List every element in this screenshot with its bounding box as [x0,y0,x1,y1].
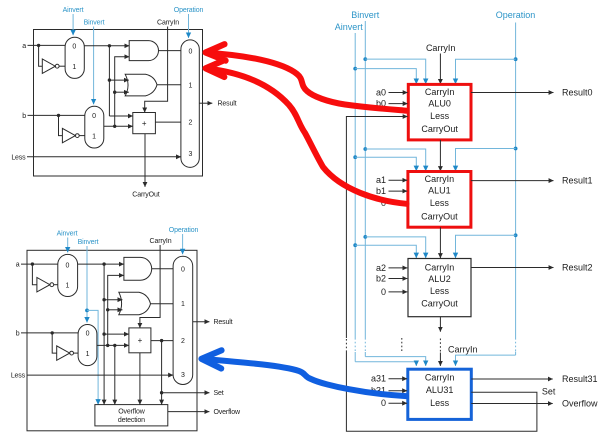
wire b0 [389,103,408,105]
svg-text:CarryIn: CarryIn [425,262,455,272]
wire operation to ALU31 [456,355,516,366]
wire Ainvert select [67,238,69,253]
node b-col OR [106,308,109,311]
overflow detection box [95,405,168,426]
wire 0 row31 [389,402,408,404]
and gate A2 [124,257,152,280]
svg-text:0: 0 [381,398,386,408]
net feedback dotted gap [345,338,347,352]
mux R2 (4:1 operation) [173,256,193,384]
svg-text:Result: Result [218,101,237,108]
node set out [160,391,163,394]
node b-branch [51,331,54,334]
svg-text:Result2: Result2 [562,262,593,272]
wire b2 [389,278,408,280]
wire carry ALU2 down [439,317,441,332]
wire Operation select [188,14,190,38]
wire ainvert to ALU31 [355,362,416,366]
net ellipsis column [401,338,403,352]
wire inverter to mux [74,352,79,354]
wire muxB2 out to adder [97,344,129,346]
net Ainvert vertical [354,33,356,338]
svg-text:0: 0 [72,43,76,50]
svg-text:CarryIn: CarryIn [448,345,478,355]
svg-text:0: 0 [189,49,193,56]
node a-col adder [102,332,105,335]
red arrow ALU0 shaft [207,53,407,111]
node binvert row1 [363,147,367,151]
svg-text:Set: Set [214,390,224,397]
svg-text:ALU2: ALU2 [428,274,451,284]
svg-text:Result: Result [214,319,233,326]
wire binvert to ALU2 [365,237,425,258]
wire Set feedback loop [346,352,537,431]
wire CarryIn top [439,54,441,85]
wire muxA1 out to AND [84,45,129,47]
svg-text:CarryOut: CarryOut [132,192,159,199]
node ainvert row0 [353,67,357,71]
wire CarryOut [144,134,146,187]
wire carry ALU0 to ALU1 [439,140,441,171]
wire OR out [151,303,174,305]
inverter B2 [57,346,70,360]
wire AND out [159,50,181,52]
svg-text:CarryOut: CarryOut [421,124,458,134]
svg-text:CarryOut: CarryOut [421,298,458,308]
wire 0 row1 [389,202,408,204]
wire a-col to OR [104,299,122,301]
svg-text:Less: Less [11,373,26,380]
wire Result out [193,321,210,323]
svg-text:Overflow: Overflow [562,398,598,408]
wire b-col to AND [108,275,124,345]
svg-text:3: 3 [181,372,185,379]
wire b-col to OR [108,309,123,311]
wire operation to ALU0 [456,59,516,84]
red arrow ALU0 head [206,44,226,60]
wire operation to ALU2 [456,235,516,258]
node ainvert row1 [353,155,357,159]
inverter A2 [37,278,50,292]
node ainvert row2 [353,243,357,247]
wire adder out [155,121,181,123]
blue arrow ALU31 shaft [203,359,407,396]
svg-text:CarryOut: CarryOut [421,211,458,221]
wire CarryIn to adder [140,245,160,328]
wire binvert to ALU1 [365,149,425,171]
wire Overflow out [168,411,210,413]
wire ainvert to ALU1 [355,157,416,171]
node b-col OR [113,91,116,94]
or gate O1 [125,74,157,96]
enclosure box (1-bit ALU msb) [27,250,197,430]
node b-col bottom [113,125,116,128]
node binvert row2 [363,235,367,239]
svg-text:Ainvert: Ainvert [335,22,364,32]
ALU1 block [408,172,471,228]
node a-col OR [102,298,105,301]
wire a to inverter [39,45,43,66]
svg-text:Ainvert: Ainvert [57,231,78,238]
mux B1 (2:1) [85,106,104,148]
blue arrow ALU31 head [202,350,222,368]
wire b1 [389,190,408,192]
svg-text:2: 2 [181,338,185,345]
wire OR out [157,84,181,86]
node a-branch [31,262,34,265]
svg-text:b: b [22,113,26,120]
svg-text:CarryIn: CarryIn [425,87,455,97]
enclosure box (1-bit ALU) [34,30,203,177]
svg-text:b1: b1 [376,186,386,196]
svg-text:CarryIn: CarryIn [425,174,455,184]
svg-text:Operation: Operation [174,7,204,14]
svg-text:Less: Less [430,286,450,296]
svg-text:Set: Set [542,386,556,396]
svg-text:CarryIn: CarryIn [157,20,179,27]
svg-text:CarryIn: CarryIn [425,373,455,383]
wire adder out [151,340,173,342]
svg-text:0: 0 [92,113,96,120]
svg-text:Overflow: Overflow [118,409,146,416]
wire inverter to mux [54,284,58,286]
svg-text:0: 0 [86,331,90,338]
node overflow-b col [113,344,116,347]
svg-text:1: 1 [66,282,70,289]
svg-text:+: + [142,119,147,128]
wire a input [28,44,66,46]
wire feedback to ALU0 Less [346,117,407,339]
svg-text:ALU0: ALU0 [428,99,451,109]
adder U2 [129,328,151,353]
wire ainvert to ALU2 [355,245,416,258]
wire binvert to ALU0 [365,59,425,84]
wire Binvert to overflow detect [87,310,98,404]
BIG-ARROWS [202,44,407,396]
wire Result31 [471,378,552,380]
svg-text:a0: a0 [376,87,386,97]
svg-text:a31: a31 [371,374,386,384]
svg-text:Binvert: Binvert [351,10,380,20]
svg-text:b2: b2 [376,273,386,283]
wire Result1 [471,180,554,182]
node Binvert branch [85,309,89,313]
adder U1 [133,113,156,134]
wire Binvert select [86,246,88,323]
svg-text:ALU31: ALU31 [426,385,454,395]
wire Result2 [471,267,554,269]
net Operation vertical [515,23,517,339]
wire a input [21,263,58,265]
svg-text:3: 3 [189,151,193,158]
wire b31 [389,390,408,392]
node a-col top [102,262,105,265]
wire Overflow out [471,403,552,405]
ALU2 block [408,259,471,317]
wire inverter to mux [59,65,65,67]
svg-text:Overflow: Overflow [214,409,242,416]
mux A1 (2:1) [65,37,84,78]
inverter B1 [62,128,75,142]
wire operation to ALU1 [456,149,516,172]
wire muxB1 out to adder [104,125,133,127]
mux B2 (2:1) [78,325,97,366]
svg-text:1: 1 [181,301,185,308]
node a-col OR [108,78,111,81]
node operation row0 [514,57,518,61]
svg-text:Operation: Operation [169,227,199,234]
svg-text:Operation: Operation [496,10,536,20]
wire a-col vertical to overflow [103,264,105,405]
svg-text:+: + [138,336,143,345]
red arrow ALU1 head [206,60,225,77]
svg-text:1: 1 [189,82,193,89]
wire Ainvert select [72,14,74,35]
svg-text:detection: detection [118,417,145,424]
node adder-out set branch [160,339,163,342]
inverter A1 [42,59,55,73]
wire inverter to mux [79,135,85,137]
svg-text:Less: Less [430,111,450,121]
ALU0 block [408,84,471,139]
wire b to inverter [52,333,57,353]
red arrow ALU1 shaft [207,69,407,204]
svg-text:CarryIn: CarryIn [426,43,456,53]
mux R1 (4:1 operation) [181,40,199,167]
wire a to inverter [32,264,37,285]
BOTTOMLEFT-SCHEMATIC [11,227,241,431]
svg-text:Result0: Result0 [562,87,593,97]
svg-text:Binvert: Binvert [78,239,99,246]
RIGHT-DIAGRAM [335,10,598,431]
svg-text:1: 1 [86,351,90,358]
wire overflow-b col [114,345,116,404]
wire Result0 [471,92,554,94]
node operation row1 [514,147,518,151]
svg-text:Less: Less [11,154,26,161]
ALU31 block [408,369,472,419]
node b-col bottom [106,344,109,347]
wire set column to overflow [161,341,163,405]
TOPLEFT-SCHEMATIC [11,7,236,199]
mux A2 (2:1) [58,254,78,296]
wire Less input [27,374,174,376]
wire AND out [152,268,173,270]
wire CarryIn to adder [145,27,168,113]
svg-text:0: 0 [181,267,185,274]
and gate A1 [129,41,158,61]
svg-text:0: 0 [66,262,70,269]
wire b input [21,332,78,334]
wire b input [28,114,85,116]
wire a-col vertical [108,46,110,116]
wire binvert to ALU31 [365,357,425,366]
svg-text:2: 2 [189,120,193,127]
svg-text:a: a [22,43,26,50]
net carry dotted gap [439,339,441,353]
svg-text:a1: a1 [376,175,386,185]
node operation row2 [514,233,518,237]
wire Less input [27,156,181,158]
node binvert row0 [363,57,367,61]
svg-text:Less: Less [430,198,450,208]
wire adder carry to overflow [139,353,141,405]
net Binvert vertical [364,21,366,338]
svg-text:0: 0 [381,287,386,297]
svg-text:Binvert: Binvert [84,20,105,27]
wire b-col to AND [115,57,130,127]
wire muxA2 out to AND [78,263,124,265]
wire ainvert to ALU0 [355,69,416,84]
wire a0 [389,92,408,94]
svg-text:CarryIn: CarryIn [150,238,172,245]
svg-text:1: 1 [72,64,76,71]
wire a1 [389,179,408,181]
wire a31 [389,378,408,380]
wire carry into ALU31 [439,353,441,366]
wire b-col to OR [115,91,129,93]
svg-text:1: 1 [92,133,96,140]
svg-text:Less: Less [430,398,450,408]
svg-text:Ainvert: Ainvert [63,7,84,14]
wire Operation select [182,234,184,254]
svg-text:Result1: Result1 [562,176,593,186]
wire Binvert select [93,27,95,105]
node b-branch [57,114,60,117]
svg-text:b: b [16,331,20,338]
wire Result out [199,102,212,104]
svg-text:a: a [16,262,20,269]
wire a-col to adder [104,333,129,335]
wire b to inverter [59,115,63,135]
node a-branch [37,44,40,47]
svg-text:ALU1: ALU1 [428,186,451,196]
svg-text:a2: a2 [376,263,386,273]
wire 0 row2 [389,291,408,293]
wire a-col to OR [109,79,128,81]
svg-text:Result31: Result31 [562,374,598,384]
wire a-col to adder [109,115,132,117]
wire Set out [162,392,210,394]
wire a2 [389,267,408,269]
node a-col top [108,44,111,47]
wire carry ALU1 to ALU2 [439,227,441,258]
or gate O2 [119,292,151,315]
